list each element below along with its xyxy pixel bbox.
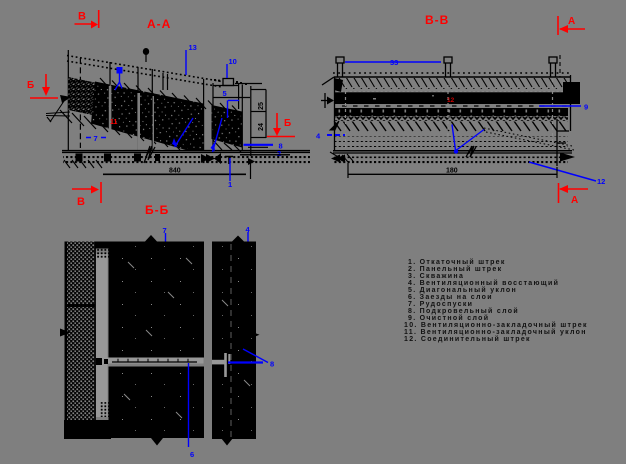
dotted patches in gray column [97,248,109,258]
section marker Б left [30,74,58,98]
band: top sparse dotted line [333,72,570,74]
blue callouts [166,232,269,447]
svg-text:6: 6 [190,450,194,459]
svg-text:11. Вентиляционно-закладочный: 11. Вентиляционно-закладочный уклон [404,328,587,336]
svg-text:8. Подкровельный слой: 8. Подкровельный слой [408,307,519,315]
main speckled sloped mass [91,82,204,151]
svg-text:1: 1 [228,180,232,189]
lower dotted rows [333,157,568,160]
feet [76,154,161,162]
edge triangles [145,235,157,242]
dotted rows [333,134,568,137]
svg-text:24: 24 [258,123,265,131]
blue 12 leader [529,162,596,181]
main solid black band [334,91,570,93]
faint dashes inside upper mass [124,258,250,418]
svg-text:А-А: А-А [147,17,171,31]
svg-text:В: В [78,11,86,23]
svg-text:7. Рудоспуски: 7. Рудоспуски [408,301,473,308]
small hatch marks lower-left of floor [64,160,102,168]
blue leaders bottom [452,125,484,151]
gray dashed post channels [346,79,553,149]
mushroom vent symbol on roof [143,48,149,55]
svg-text:6. Заезды на слои: 6. Заезды на слои [408,294,493,301]
gray post channels through mass [109,86,112,150]
svg-text:12: 12 [447,97,455,104]
bright gray shaft column [96,254,108,417]
middle gap bright bar + tick line [108,358,204,364]
right end lines [240,147,290,179]
blue 9 leader [539,105,581,107]
svg-text:А: А [568,16,575,27]
top solid boundary line [334,76,570,78]
section marker B bottom [72,182,101,203]
T foot [225,157,233,165]
svg-text:Б-Б: Б-Б [145,203,169,217]
dimension 180 [348,173,557,175]
svg-text:33: 33 [390,58,398,67]
gray dash row [342,105,568,107]
dense dot row [334,89,570,93]
section marker Б right [267,113,295,137]
gray T symbol in right column [212,360,225,365]
svg-text:А: А [571,195,578,206]
advance arrows in strip [201,154,210,163]
svg-text:25: 25 [258,102,265,110]
svg-text:11: 11 [110,119,118,126]
diagonal ticks bottom band [333,122,568,133]
svg-text:3. Скважина: 3. Скважина [408,273,464,280]
svg-text:7: 7 [94,134,98,143]
zigzag break [466,146,476,157]
right dimension bracket [251,90,266,139]
svg-text:В-В: В-В [425,13,449,27]
section marker A bottom right [559,183,589,203]
svg-text:4. Вентиляционный восстающий: 4. Вентиляционный восстающий [408,279,559,287]
double solid line [333,150,572,152]
svg-text:12: 12 [597,177,605,186]
band: diagonal ticks top [335,78,568,89]
hatch spur ticks along top edge of mass [100,78,242,117]
svg-text:7: 7 [163,226,167,235]
main black mass upper [109,242,205,358]
blue dim 33 [345,61,441,63]
svg-text:5: 5 [223,89,227,98]
floor lines [62,151,310,153]
small gate posts on slope [163,73,168,90]
bottom band extension left [64,420,111,439]
svg-text:10. Вентиляционно-закладочный: 10. Вентиляционно-закладочный штрек [404,321,588,329]
svg-text:180: 180 [446,168,458,175]
right small block (label 10) [223,79,234,86]
dotted strip below floor [63,156,310,159]
blue/black lines right of Б right marker [244,144,274,146]
left corner arrows [336,155,345,163]
main black mass lower [109,367,205,439]
blue 4 left [327,134,345,136]
svg-text:Б: Б [27,80,34,91]
svg-text:5. Диагональный уклон: 5. Диагональный уклон [408,286,517,294]
blue callouts [86,50,239,181]
zigzag row [335,117,568,122]
svg-text:В: В [77,196,85,208]
section marker B top [75,10,99,28]
svg-text:10: 10 [229,57,237,66]
top posts [336,57,557,77]
svg-text:9. Очистной слой: 9. Очистной слой [408,314,489,322]
hatch spur ticks along bottom edge [60,110,241,152]
dark dashed band [335,108,568,116]
posts (vertical thin lines) [68,50,203,150]
dotted bits near block 10 [214,79,247,85]
svg-text:13: 13 [189,43,197,52]
dashed gray line inside right column [230,244,232,437]
svg-text:12. Соединительный штрек: 12. Соединительный штрек [404,335,531,343]
left edge details [334,78,343,92]
cross-hatched wedge (left) [69,77,110,119]
left end beak detail [46,101,70,122]
svg-text:9: 9 [584,103,588,112]
zigzag break in floor [144,146,155,163]
svg-text:8: 8 [279,142,283,151]
right column [212,242,256,440]
section marker A top right [558,16,585,35]
svg-text:840: 840 [169,168,181,175]
right edge details [563,82,580,101]
cross-hatch left column [65,242,68,422]
dimension 840 [103,173,246,175]
svg-text:1. Откаточный штрек: 1. Откаточный штрек [408,258,506,266]
black cap over gray column [95,242,111,249]
top sloped dotted roof lines [67,56,222,88]
svg-text:8: 8 [270,360,274,369]
svg-text:2. Панельный штрек: 2. Панельный штрек [408,265,502,273]
svg-text:Б: Б [284,118,291,129]
